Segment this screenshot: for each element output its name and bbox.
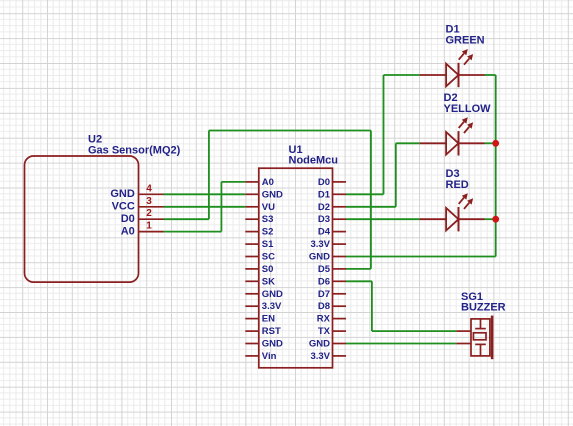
LED D1 anode lead [420,74,447,76]
svg-text:A0: A0 [121,225,135,237]
wire net D0: top horizontal run [209,130,371,132]
LED D3 anode lead [420,218,447,220]
U1 left pin S3 (row 4) stub [245,218,258,220]
U1 left pin GND (row 14) stub [245,343,258,345]
svg-text:TX: TX [318,326,331,337]
svg-text:VCC: VCC [112,201,135,213]
U1 right pin RX (row 12) stub [333,318,347,320]
junction net GND2 at LED D2 cathode [492,140,499,147]
LED D2 triangle [446,132,458,155]
svg-text:Gas Sensor(MQ2): Gas Sensor(MQ2) [88,144,181,156]
wire net D0: into U1 D5 pin [346,268,371,270]
wire net VCC: U2 VCC to U1 VU [164,206,246,208]
LED D3 cathode lead [459,218,485,220]
svg-text:D0: D0 [318,177,330,188]
svg-text:4: 4 [146,183,152,194]
gas sensor U2 body [25,156,139,282]
U2 pin 1 (A0) stub [139,231,164,233]
svg-text:RST: RST [262,326,281,337]
buzzer SG1 top plate [475,328,486,330]
svg-text:S0: S0 [262,264,274,275]
U1 right pin D8 (row 11) stub [333,305,347,307]
LED D3 emission arrow 2 [464,203,469,209]
svg-text:GND: GND [262,289,283,300]
svg-text:VU: VU [262,202,275,213]
wire net D2: to LED D2 anode [396,142,420,144]
LED D2 emission arrow 1 [459,122,464,128]
wire net GND2: LED D3 cathode to bus [485,218,496,220]
U1 left pin GND (row 2) stub [245,193,258,195]
svg-text:D4: D4 [318,227,331,238]
LED D3 cathode bar [458,207,460,231]
LED D2 emission arrow 2 [464,127,469,133]
LED D1 cathode bar [458,63,460,87]
U1 left pin S1 (row 6) stub [245,243,258,245]
buzzer SG1 crystal box [473,333,486,340]
svg-text:3.3V: 3.3V [310,351,330,362]
svg-text:YELLOW: YELLOW [444,103,492,115]
LED D1 triangle [446,64,458,87]
svg-text:1: 1 [146,221,152,232]
LED D2 cathode bar [458,131,460,155]
buzzer SG1 right bar [491,316,494,360]
svg-text:S3: S3 [262,214,274,225]
U2 pin 2 (D0) stub [139,218,164,220]
U1 right pin D7 (row 10) stub [333,293,347,295]
wire net D6: to buzzer + pin [372,330,456,332]
U1 right pin 3.3V (row 15) stub [333,355,347,357]
wire net D1: to LED D1 anode [384,74,420,76]
U1 right pin D4 (row 5) stub [333,231,347,233]
svg-text:SK: SK [262,276,275,287]
U2 pin 4 (GND) stub [139,193,164,195]
U1 left pin RST (row 13) stub [245,330,258,332]
wire net GND2: LED D2 cathode to bus [485,142,496,144]
U1 right pin GND (row 14) stub [333,343,347,345]
U1 left pin Vin (row 15) stub [245,355,258,357]
svg-text:GREEN: GREEN [446,35,485,47]
svg-text:D7: D7 [318,289,330,300]
wire net GND2: U1 GND pin to cathode bus [346,256,496,258]
U1 left pin S2 (row 5) stub [245,231,258,233]
NodeMcu U1 body [259,168,333,368]
U1 right pin D5 (row 8) stub [333,268,347,270]
buzzer SG1 bottom stem [480,344,482,356]
U1 left pin EN (row 12) stub [245,318,258,320]
svg-text:D0: D0 [121,213,135,225]
wire net GND2: cathode bus vertical [495,75,497,257]
U1 left pin SC (row 7) stub [245,256,258,258]
svg-text:EN: EN [262,314,275,325]
U1 right pin D3 (row 4) stub [333,218,347,220]
svg-text:3.3V: 3.3V [262,301,282,312]
svg-text:GND: GND [262,339,283,350]
wire net D0: vertical up at x=209 [208,131,210,220]
U1 right pin D6 (row 9) stub [333,280,347,282]
wire net GND: U2 GND to U1 GND [164,193,246,195]
U1 right pin D0 (row 1) stub [333,181,347,183]
U1 left pin VU (row 3) stub [245,206,258,208]
LED D2 anode lead [420,142,447,144]
svg-text:GND: GND [309,339,330,350]
LED D3 triangle [446,208,458,231]
U1 left pin GND (row 10) stub [245,293,258,295]
svg-text:D8: D8 [318,301,330,312]
svg-text:RX: RX [317,314,331,325]
U1 left pin A0 (row 1) stub [245,181,258,183]
LED D1 emission arrow 1 [459,53,464,59]
svg-text:A0: A0 [262,177,274,188]
buzzer SG1 body [471,319,490,356]
wire net A0: into U1 A0 pin [221,181,245,183]
wire net D1: U1 D1 pin to vertical [346,193,384,195]
svg-text:3.3V: 3.3V [310,239,330,250]
svg-text:GND: GND [309,252,330,263]
buzzer SG1 bottom plate [475,343,486,345]
U2 pin 3 (VCC) stub [139,206,164,208]
U1 right pin GND (row 7) stub [333,256,347,258]
U1 right pin D1 (row 2) stub [333,193,347,195]
U1 left pin SK (row 9) stub [245,280,258,282]
svg-text:RED: RED [446,179,469,191]
wire net A0: vertical up [220,182,222,232]
wire net D0: U2 D0 horizontal [164,218,209,220]
U1 right pin 3.3V (row 6) stub [333,243,347,245]
U1 left pin S0 (row 8) stub [245,268,258,270]
wire net D6: U1 D6 pin to vertical [346,280,372,282]
svg-text:Vin: Vin [262,351,277,362]
wire net D2: vertical up to LED D2 row [395,143,397,207]
wire net A0: U2 A0 horizontal [164,231,222,233]
svg-text:S2: S2 [262,227,274,238]
U1 left pin 3.3V (row 11) stub [245,305,258,307]
buzzer SG1 - pin stub [456,343,471,345]
svg-text:BUZZER: BUZZER [461,302,506,314]
LED D1 emission arrow 2 [464,58,469,64]
svg-text:SC: SC [262,252,275,263]
LED D2 cathode lead [459,142,485,144]
wire net D2: U1 D2 pin to vertical [346,206,396,208]
wire net D1: vertical up to LED D1 row [383,75,385,194]
junction net GND2 at LED D3 cathode [492,216,499,223]
svg-text:D2: D2 [318,202,330,213]
svg-text:D5: D5 [318,264,331,275]
wire net GND2: LED D1 cathode to bus [485,74,496,76]
LED D1 cathode lead [459,74,485,76]
buzzer SG1 top stem [480,319,482,329]
svg-text:NodeMcu: NodeMcu [289,155,339,167]
wire net GND3: U1 GND pin to buzzer - pin [346,343,456,345]
svg-text:D3: D3 [318,214,330,225]
svg-text:2: 2 [146,208,152,219]
svg-text:D1: D1 [318,189,331,200]
LED D3 emission arrow 1 [459,198,464,204]
svg-text:3: 3 [146,196,152,207]
buzzer SG1 + pin stub [456,330,471,332]
wire net D6: vertical down to buzzer row [371,281,373,331]
svg-text:GND: GND [262,189,283,200]
wire net D0: vertical down to D5 row [370,131,372,269]
U1 right pin TX (row 13) stub [333,330,347,332]
U1 right pin D2 (row 3) stub [333,206,347,208]
svg-text:S1: S1 [262,239,274,250]
wire net D3: U1 D3 pin to LED D3 anode [346,218,420,220]
svg-text:GND: GND [110,188,135,200]
svg-text:D6: D6 [318,276,330,287]
